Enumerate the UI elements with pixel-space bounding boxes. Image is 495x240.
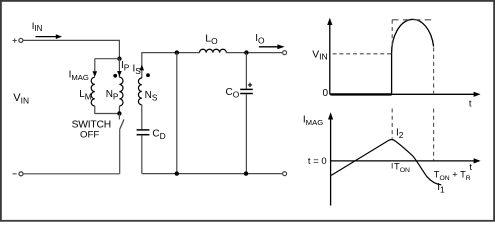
current arrow IO <box>259 44 285 49</box>
svg-text:t: t <box>469 98 472 109</box>
capacitor CO <box>240 89 253 93</box>
svg-text:CD: CD <box>152 128 165 141</box>
dashed TON line bottom plot <box>391 109 393 169</box>
node CO bottom <box>244 171 248 175</box>
svg-text:CO: CO <box>226 87 240 100</box>
current arrow IS <box>140 65 145 71</box>
node rail top left <box>175 50 179 54</box>
ramp IMAG <box>331 139 441 184</box>
waveform step rise <box>391 53 393 94</box>
terminal output bottom <box>283 172 287 176</box>
waveform resonant dome <box>392 19 434 53</box>
current arrow IMAG <box>93 59 98 77</box>
wire bottom primary <box>23 173 120 175</box>
wire input top <box>23 40 119 58</box>
dashed TON+TR line top <box>433 48 435 161</box>
polarity plus CO <box>248 83 252 87</box>
svg-text:IP: IP <box>121 60 130 73</box>
wire CO upper <box>245 53 247 89</box>
svg-text:IS: IS <box>133 63 142 76</box>
wire CD to bottom <box>141 135 143 173</box>
terminal output top <box>283 51 287 55</box>
svg-text:t: t <box>469 162 472 173</box>
svg-text:I2: I2 <box>396 127 404 140</box>
phase dot primary <box>113 74 117 78</box>
wire bottom secondary <box>142 173 283 175</box>
svg-text:t = 0: t = 0 <box>308 156 327 167</box>
terminal - (negative input) <box>13 172 24 176</box>
winding NS <box>138 78 141 105</box>
wire CO lower <box>245 94 247 174</box>
inductor LM <box>91 77 95 106</box>
current arrow IP <box>117 71 122 77</box>
switch SW open <box>119 114 124 174</box>
node rail bottom left <box>175 171 179 175</box>
wire rail top right <box>226 52 282 54</box>
wire primary right with arrow <box>118 59 120 77</box>
capacitor CD <box>137 130 150 135</box>
node bottom primary junction <box>117 111 121 115</box>
svg-text:IO: IO <box>255 33 265 46</box>
axis X bottom plot <box>331 158 481 163</box>
axis Y bottom plot <box>328 112 333 205</box>
wire primary top edge <box>95 58 120 60</box>
axis Y top plot <box>327 18 332 95</box>
current arrow IIN <box>36 34 63 39</box>
axis X top plot <box>330 92 481 97</box>
node CO top <box>244 50 248 54</box>
dashed top of dome <box>392 19 434 21</box>
wire NP bottom <box>118 106 120 114</box>
dashed TON line top plot <box>391 20 393 46</box>
waveform baseline thick <box>331 93 392 95</box>
node top primary junction <box>117 57 121 61</box>
inductor LO <box>200 49 227 52</box>
svg-text:I1: I1 <box>437 182 445 195</box>
terminal + (positive input) <box>13 38 23 42</box>
wire LM bottom <box>95 106 120 114</box>
wire diode branch <box>176 53 178 174</box>
svg-text:NP: NP <box>106 89 119 102</box>
wire secondary top <box>142 53 200 78</box>
wire NS to CD <box>141 105 143 129</box>
svg-text:LM: LM <box>79 89 92 102</box>
svg-text:0: 0 <box>323 88 329 99</box>
svg-text:NS: NS <box>145 90 158 103</box>
winding NP <box>119 77 123 106</box>
phase dot secondary <box>146 73 150 77</box>
svg-text:VIN: VIN <box>312 49 327 61</box>
svg-text:OFF: OFF <box>80 129 99 140</box>
dashed VIN level <box>333 53 391 55</box>
